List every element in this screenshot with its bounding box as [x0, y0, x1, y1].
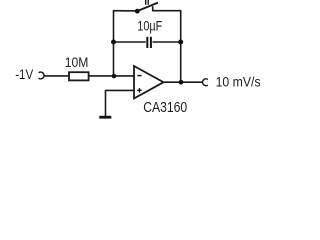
svg-text:CA3160: CA3160: [143, 100, 187, 116]
svg-text:10M: 10M: [65, 54, 89, 70]
svg-text:-1V: -1V: [15, 66, 34, 82]
svg-text:10 mV/s: 10 mV/s: [216, 74, 261, 90]
svg-text:10µF: 10µF: [137, 18, 162, 34]
